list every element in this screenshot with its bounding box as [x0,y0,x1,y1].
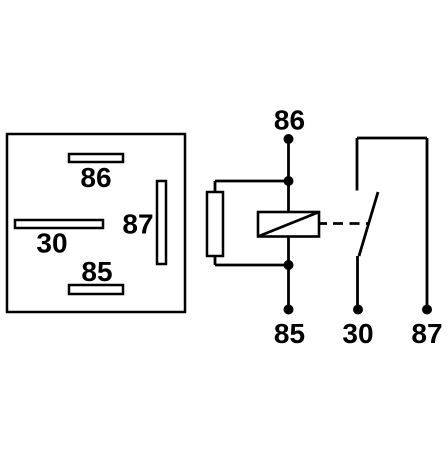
terminal 86 dot [284,134,294,144]
actuator dashed link [333,222,369,225]
terminal 87 dot [422,305,432,315]
switch fixed contact wire [356,138,359,191]
resistor bottom stub [214,256,217,265]
wire blade to terminal 30 [356,256,359,309]
wire terminal 86 to coil [287,139,290,212]
pin 87 slot [157,181,166,264]
wire resistor bottom to node B [215,264,289,267]
wire coil to terminal 85 [287,237,290,310]
junction node B [284,260,294,270]
wire to terminal 87 [426,138,429,309]
svg-text:86: 86 [80,162,111,193]
pin 86 slot [69,154,123,162]
svg-text:30: 30 [342,318,373,349]
terminal 85 dot [284,305,294,315]
resistor R1 (parallel) [207,192,223,256]
actuator stub [319,222,327,225]
coil diagonal [258,212,319,237]
switch blade [359,192,378,256]
svg-text:87: 87 [411,318,442,349]
relay coil K1 [258,212,319,237]
wire node A to resistor top [215,180,289,183]
svg-text:85: 85 [81,256,112,287]
relay base outline [7,134,185,312]
svg-text:86: 86 [274,105,305,136]
terminal 30 dot [353,305,363,315]
wire switch top horizontal [357,137,427,140]
pin 85 slot [69,285,123,294]
svg-text:87: 87 [122,209,153,240]
junction node A [284,176,294,186]
pin 30 slot [15,220,103,228]
resistor top stub [214,181,217,192]
svg-text:30: 30 [36,228,67,259]
svg-text:85: 85 [274,318,305,349]
